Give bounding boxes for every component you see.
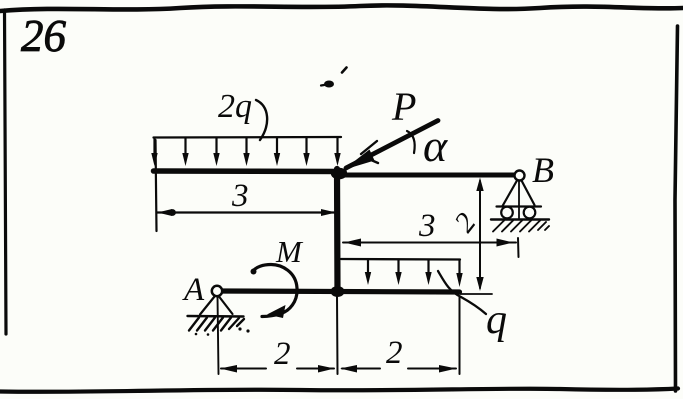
support B center line bbox=[518, 181, 520, 218]
dimension 3 top line bbox=[157, 211, 336, 213]
moment M arrowhead bbox=[267, 305, 286, 318]
2q load arrow 4 bbox=[243, 138, 249, 166]
support B ground line bbox=[491, 218, 549, 220]
2q load arrow 1 bbox=[151, 138, 157, 166]
svg-text:M: M bbox=[275, 234, 304, 269]
2q load arrow 7 bbox=[334, 138, 340, 166]
dimension 3 top right arrowhead bbox=[321, 209, 336, 216]
svg-text:A: A bbox=[182, 272, 205, 308]
bottom beam bbox=[217, 291, 460, 292]
support B pin circle bbox=[515, 171, 525, 181]
support A hatch specks bbox=[195, 327, 250, 335]
dimension 3 right right arrowhead bbox=[497, 239, 514, 247]
dimension 2 bottom tick bbox=[460, 293, 492, 295]
force P shaft bbox=[346, 121, 438, 169]
support B triangle right leg bbox=[522, 181, 535, 206]
dimension 3 top left arrowhead bbox=[158, 209, 173, 216]
bottom dimension extension line at A bbox=[218, 296, 219, 374]
2q load arrow 3 bbox=[213, 138, 219, 166]
bottom dimension right span right arrowhead bbox=[439, 365, 457, 373]
support A triangle left leg bbox=[200, 297, 215, 315]
label 2q leader paren bbox=[256, 100, 267, 140]
svg-text:α: α bbox=[423, 120, 448, 171]
svg-text:2q: 2q bbox=[218, 88, 252, 125]
svg-text:q: q bbox=[486, 297, 507, 343]
dimension 3 right left arrowhead bbox=[344, 239, 361, 247]
dimension 2 vertical line bbox=[479, 181, 481, 288]
support B base line bbox=[497, 205, 542, 207]
ink speck blob bbox=[321, 81, 334, 88]
support A pin circle bbox=[212, 286, 222, 296]
distributed load 2q top line bbox=[154, 136, 342, 139]
support A ground line bbox=[188, 315, 244, 318]
support B triangle left leg bbox=[503, 181, 518, 207]
q load right edge arrow bbox=[456, 260, 462, 287]
vertical member bbox=[334, 169, 341, 292]
support B roller right bbox=[524, 207, 536, 219]
junction blob bottom bbox=[331, 286, 345, 297]
q load arrow 1 bbox=[365, 260, 371, 285]
svg-text:3: 3 bbox=[418, 208, 436, 244]
bottom dimension left span right arrowhead bbox=[318, 365, 335, 373]
support B hatching bbox=[493, 221, 549, 232]
bottom dimension extension line at member bbox=[336, 296, 339, 374]
dimension 3 right extension tick bbox=[517, 238, 520, 257]
dimension 3 right line bbox=[343, 242, 516, 244]
bottom dimension left span line bbox=[221, 368, 334, 370]
force P barb bbox=[361, 141, 377, 154]
support A hatching bbox=[189, 318, 244, 331]
frame left border bbox=[5, 10, 7, 334]
top beam bbox=[154, 168, 345, 174]
bottom dimension right span line bbox=[342, 368, 456, 370]
dimension 3 top dot bbox=[169, 209, 176, 216]
moment M arc start blob bbox=[251, 269, 257, 275]
svg-text:P: P bbox=[391, 84, 416, 129]
dimension 2 up arrowhead bbox=[476, 178, 483, 192]
ink speck tick bbox=[342, 68, 347, 73]
junction blob top bbox=[331, 168, 347, 180]
distributed load q top line bbox=[341, 258, 460, 261]
force P arrowhead bbox=[343, 150, 375, 171]
moment M arc bbox=[253, 265, 297, 317]
label q leader bbox=[438, 271, 486, 314]
frame right border bbox=[675, 26, 678, 391]
support A triangle right leg bbox=[219, 297, 233, 315]
svg-text:B: B bbox=[532, 150, 554, 190]
q load arrow 2 bbox=[395, 260, 401, 285]
svg-text:2: 2 bbox=[386, 335, 403, 371]
frame top border bbox=[0, 5, 683, 11]
bottom dimension left span left arrowhead bbox=[220, 365, 237, 373]
bottom dimension right span left arrowhead bbox=[340, 365, 357, 373]
right beam bbox=[341, 173, 517, 178]
2q load arrow 2 bbox=[182, 138, 188, 166]
dimension 2 down arrowhead bbox=[476, 277, 483, 291]
bottom dimension extension line at beam end bbox=[459, 297, 461, 374]
angle alpha arc bbox=[407, 131, 415, 153]
svg-text:26: 26 bbox=[21, 11, 67, 61]
2q load arrow 6 bbox=[303, 138, 309, 166]
2q load arrow 5 bbox=[274, 138, 280, 166]
dimension 3 top extension line bbox=[156, 140, 157, 231]
frame bottom border bbox=[0, 389, 678, 392]
q load arrow 3 bbox=[425, 260, 431, 285]
svg-text:2: 2 bbox=[274, 336, 291, 372]
support B roller left bbox=[501, 207, 513, 219]
svg-text:3: 3 bbox=[231, 178, 249, 214]
